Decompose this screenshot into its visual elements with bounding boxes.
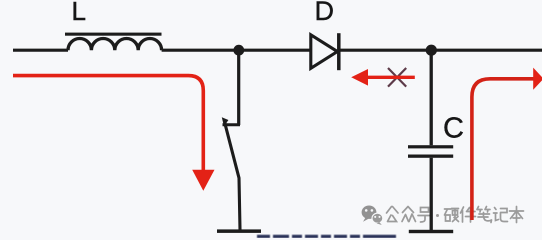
junction node at capacitor branch [426,45,437,56]
red output current path (up from cap area, right to edge) [472,79,535,220]
公 [387,207,399,222]
red current path from input (left), curving down [13,76,203,171]
watermark text 公众号·硬件笔记本 [387,207,524,223]
red arrowhead right (clipped at edge) [533,68,542,90]
red arrowhead down [192,170,214,191]
笔 [477,207,492,223]
众 [402,207,416,222]
capacitor bottom terminal bar [409,230,453,233]
inductor L (4 arcs) [68,39,162,51]
X mark over blocked arrow [388,68,406,87]
wire inductor to diode [162,49,311,52]
记 [494,208,508,222]
inductor core bar [65,33,162,36]
switch blade tip barb [222,117,229,126]
main horizontal wire: input segment [13,49,68,52]
capacitor top plate [408,145,453,148]
red blocked-current arrow (points left at diode) [367,76,415,79]
capacitor bottom plate [408,155,453,158]
cut-off navy caption along bottom edge [257,235,396,238]
本 [510,207,524,223]
svg-text:C: C [443,112,464,144]
watermark logo 公众号 chat-bubbles [362,206,383,226]
wire diode to output [340,49,542,52]
capacitor branch: wire down from node [430,50,433,145]
diode cathode bar [337,33,341,70]
capacitor lower wire [430,158,433,230]
switch branch: wire down from node [237,50,240,125]
diode D triangle [311,35,338,69]
件 [461,207,476,222]
· [436,214,439,217]
switch fixed contact foot [223,123,241,126]
号 [418,208,431,223]
硬 [445,209,459,222]
switch bottom terminal bar [217,229,261,233]
junction node at switch branch [233,45,244,56]
switch blade [225,123,240,230]
svg-text:D: D [315,0,335,26]
svg-text:L: L [72,0,86,26]
